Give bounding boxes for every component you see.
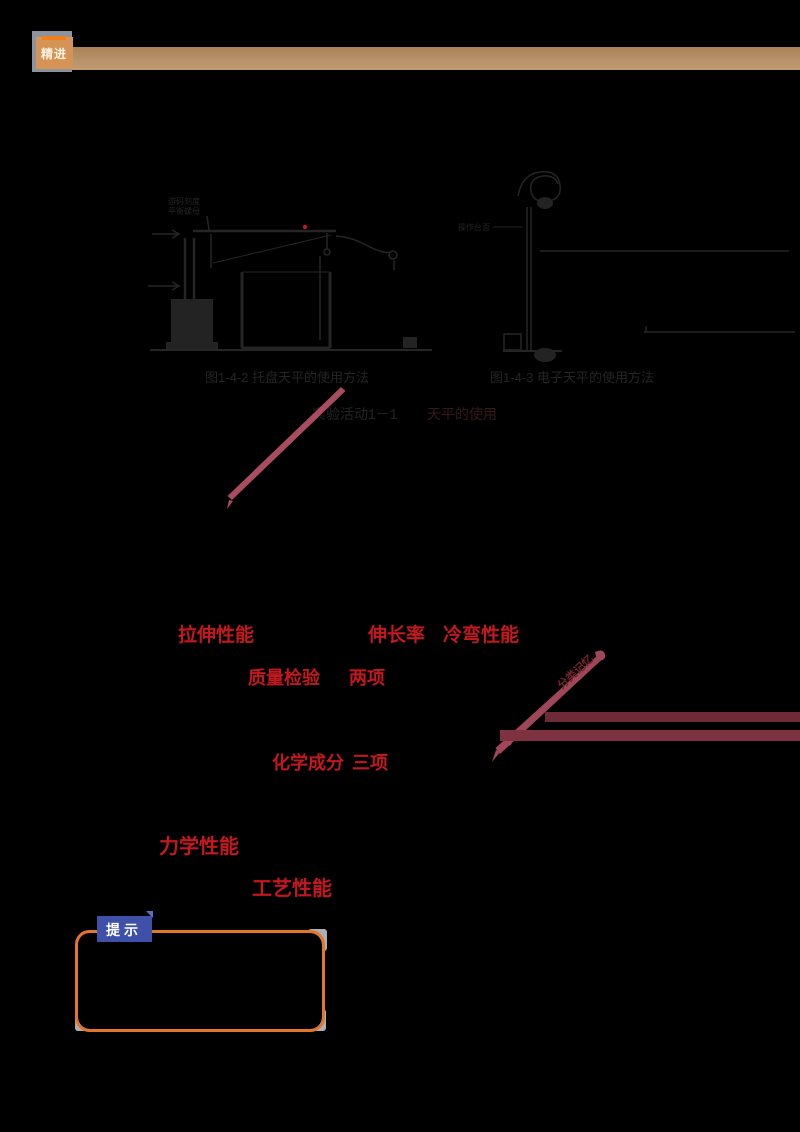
svg-text:伸长率: 伸长率	[367, 623, 425, 646]
svg-text:图1-4-2 托盘天平的使用方法: 图1-4-2 托盘天平的使用方法	[205, 370, 369, 385]
left label arrow 2	[148, 282, 179, 290]
leader line	[207, 216, 209, 230]
diagonal string	[213, 235, 331, 263]
badge 精进 orange	[36, 37, 73, 69]
hint label blue	[97, 916, 152, 942]
svg-text:化学成分: 化学成分	[272, 752, 344, 773]
header tan bar	[72, 47, 800, 70]
pink arrow 1	[228, 387, 346, 500]
right figure: electronic balance	[458, 172, 795, 362]
hang hook	[326, 233, 328, 249]
red dot on beam	[303, 225, 307, 229]
hidden highlight bar B	[500, 730, 800, 741]
svg-text:平衡螺母: 平衡螺母	[168, 206, 200, 216]
hint box orange border	[77, 932, 324, 1031]
svg-text:游码刻度: 游码刻度	[168, 196, 200, 206]
svg-text:冷弯性能: 冷弯性能	[443, 623, 519, 646]
table frame	[242, 272, 330, 348]
black mask inside hint box	[78, 933, 322, 1029]
svg-text:图1-4-3 电子天平的使用方法: 图1-4-3 电子天平的使用方法	[490, 370, 654, 385]
svg-text:三项: 三项	[352, 753, 388, 773]
badge top orange strip	[42, 36, 66, 40]
stand base block	[171, 299, 213, 345]
svg-text:工艺性能: 工艺性能	[252, 876, 332, 900]
svg-text:质量检验: 质量检验	[248, 667, 321, 688]
pointer	[210, 234, 212, 268]
pink arrow 2	[496, 655, 603, 754]
long line lower	[644, 326, 795, 332]
bench	[503, 350, 562, 352]
bench line	[150, 349, 432, 351]
stand column	[185, 238, 194, 344]
stand pole	[527, 207, 531, 352]
long line upper	[540, 250, 789, 252]
inner vertical	[319, 256, 321, 340]
hidden highlight bar A	[545, 712, 800, 722]
scribble cloud	[518, 172, 560, 202]
svg-text:提示: 提示	[106, 922, 142, 938]
svg-text:两项: 两项	[349, 668, 385, 688]
left figure: balance apparatus	[148, 196, 432, 350]
svg-text:分类记忆: 分类记忆	[554, 652, 596, 692]
weight block	[403, 337, 417, 348]
gray corner patches of hint box	[308, 929, 327, 951]
svg-text:拉伸性能: 拉伸性能	[178, 623, 254, 646]
beam	[193, 230, 336, 233]
svg-text:精进: 精进	[41, 46, 67, 61]
svg-text:力学性能: 力学性能	[159, 834, 239, 858]
swing curve	[336, 236, 393, 252]
svg-text:操作台面: 操作台面	[458, 222, 490, 232]
left label arrow 1	[152, 230, 179, 238]
dark blob	[537, 197, 553, 209]
gray backing square behind badge	[32, 31, 72, 72]
svg-text:天平的使用: 天平的使用	[427, 406, 497, 422]
